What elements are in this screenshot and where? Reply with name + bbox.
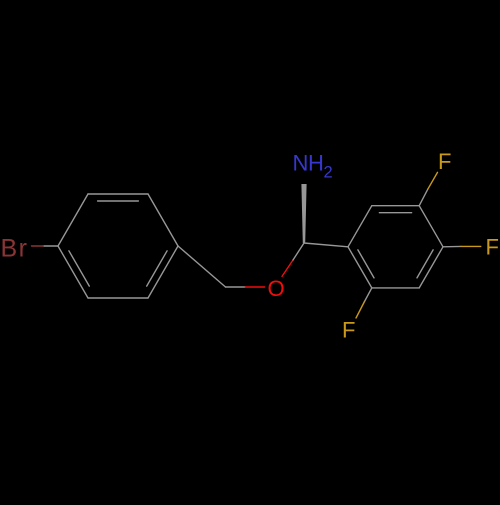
wire BL-L double bond outer bbox=[348, 247, 372, 288]
bond ring2 TR to F top : fluorine half bbox=[428, 172, 438, 189]
wire R-BR double bond outer bbox=[419, 247, 443, 288]
benzene ring 2 (2,4,5-trifluorophenyl) outline bbox=[348, 206, 443, 288]
svg-text:F: F bbox=[342, 318, 355, 343]
bond ring2 R to F right : fluorine half bbox=[461, 245, 481, 247]
ring2 inner double line left-bottom bbox=[358, 250, 374, 278]
bond ring2 BL to F bottom : fluorine half bbox=[356, 302, 365, 319]
bond to Br : bromine-colored half bbox=[32, 245, 44, 247]
ring2 inner double line top bbox=[379, 212, 411, 214]
ring2 inner double line right-bottom bbox=[417, 250, 433, 278]
wire L-TL bbox=[58, 194, 88, 246]
wire TR-R bbox=[419, 206, 443, 247]
wire L-TL bbox=[348, 206, 372, 247]
bond O to C2 : red half bbox=[282, 260, 293, 276]
wire R-BR double bond outer bbox=[148, 246, 178, 298]
bond ring2 R to F right : gray half bbox=[443, 245, 461, 247]
bond CH2 to O : red half bbox=[245, 286, 264, 288]
svg-text:Br: Br bbox=[1, 235, 29, 263]
svg-text:F: F bbox=[438, 149, 451, 174]
ring1 inner double line left-bottom bbox=[69, 251, 89, 286]
ring1 inner double line top bbox=[98, 200, 139, 202]
bond ring1 R to CH2 bbox=[178, 246, 226, 287]
bond C(ring1 L) to Br : gray half bbox=[43, 245, 58, 247]
wire TL-TR double bond outer bbox=[372, 205, 419, 207]
stereo wedge bond C2 up to NH2 (solid, carbon gray) bbox=[301, 184, 306, 243]
bond ring2 BL to F bottom : gray half bbox=[365, 288, 372, 302]
bond C2 to ring2 L bbox=[304, 243, 348, 247]
wire BL-L double bond outer bbox=[58, 246, 88, 298]
benzene ring 1 (4-bromophenyl) outline bbox=[58, 194, 178, 298]
wire TR-R bbox=[148, 194, 178, 246]
wire TL-TR double bond outer bbox=[88, 193, 148, 195]
bond CH2 to O : gray half bbox=[226, 286, 246, 288]
svg-text:F: F bbox=[486, 235, 499, 260]
bond ring2 TR to F top : gray half bbox=[419, 189, 428, 206]
wire BR-BL bbox=[88, 297, 148, 299]
wire BR-BL bbox=[372, 287, 419, 289]
ring1 inner double line right-bottom bbox=[147, 251, 167, 286]
svg-text:O: O bbox=[268, 276, 285, 301]
bond O to C2 : gray half bbox=[293, 243, 304, 260]
